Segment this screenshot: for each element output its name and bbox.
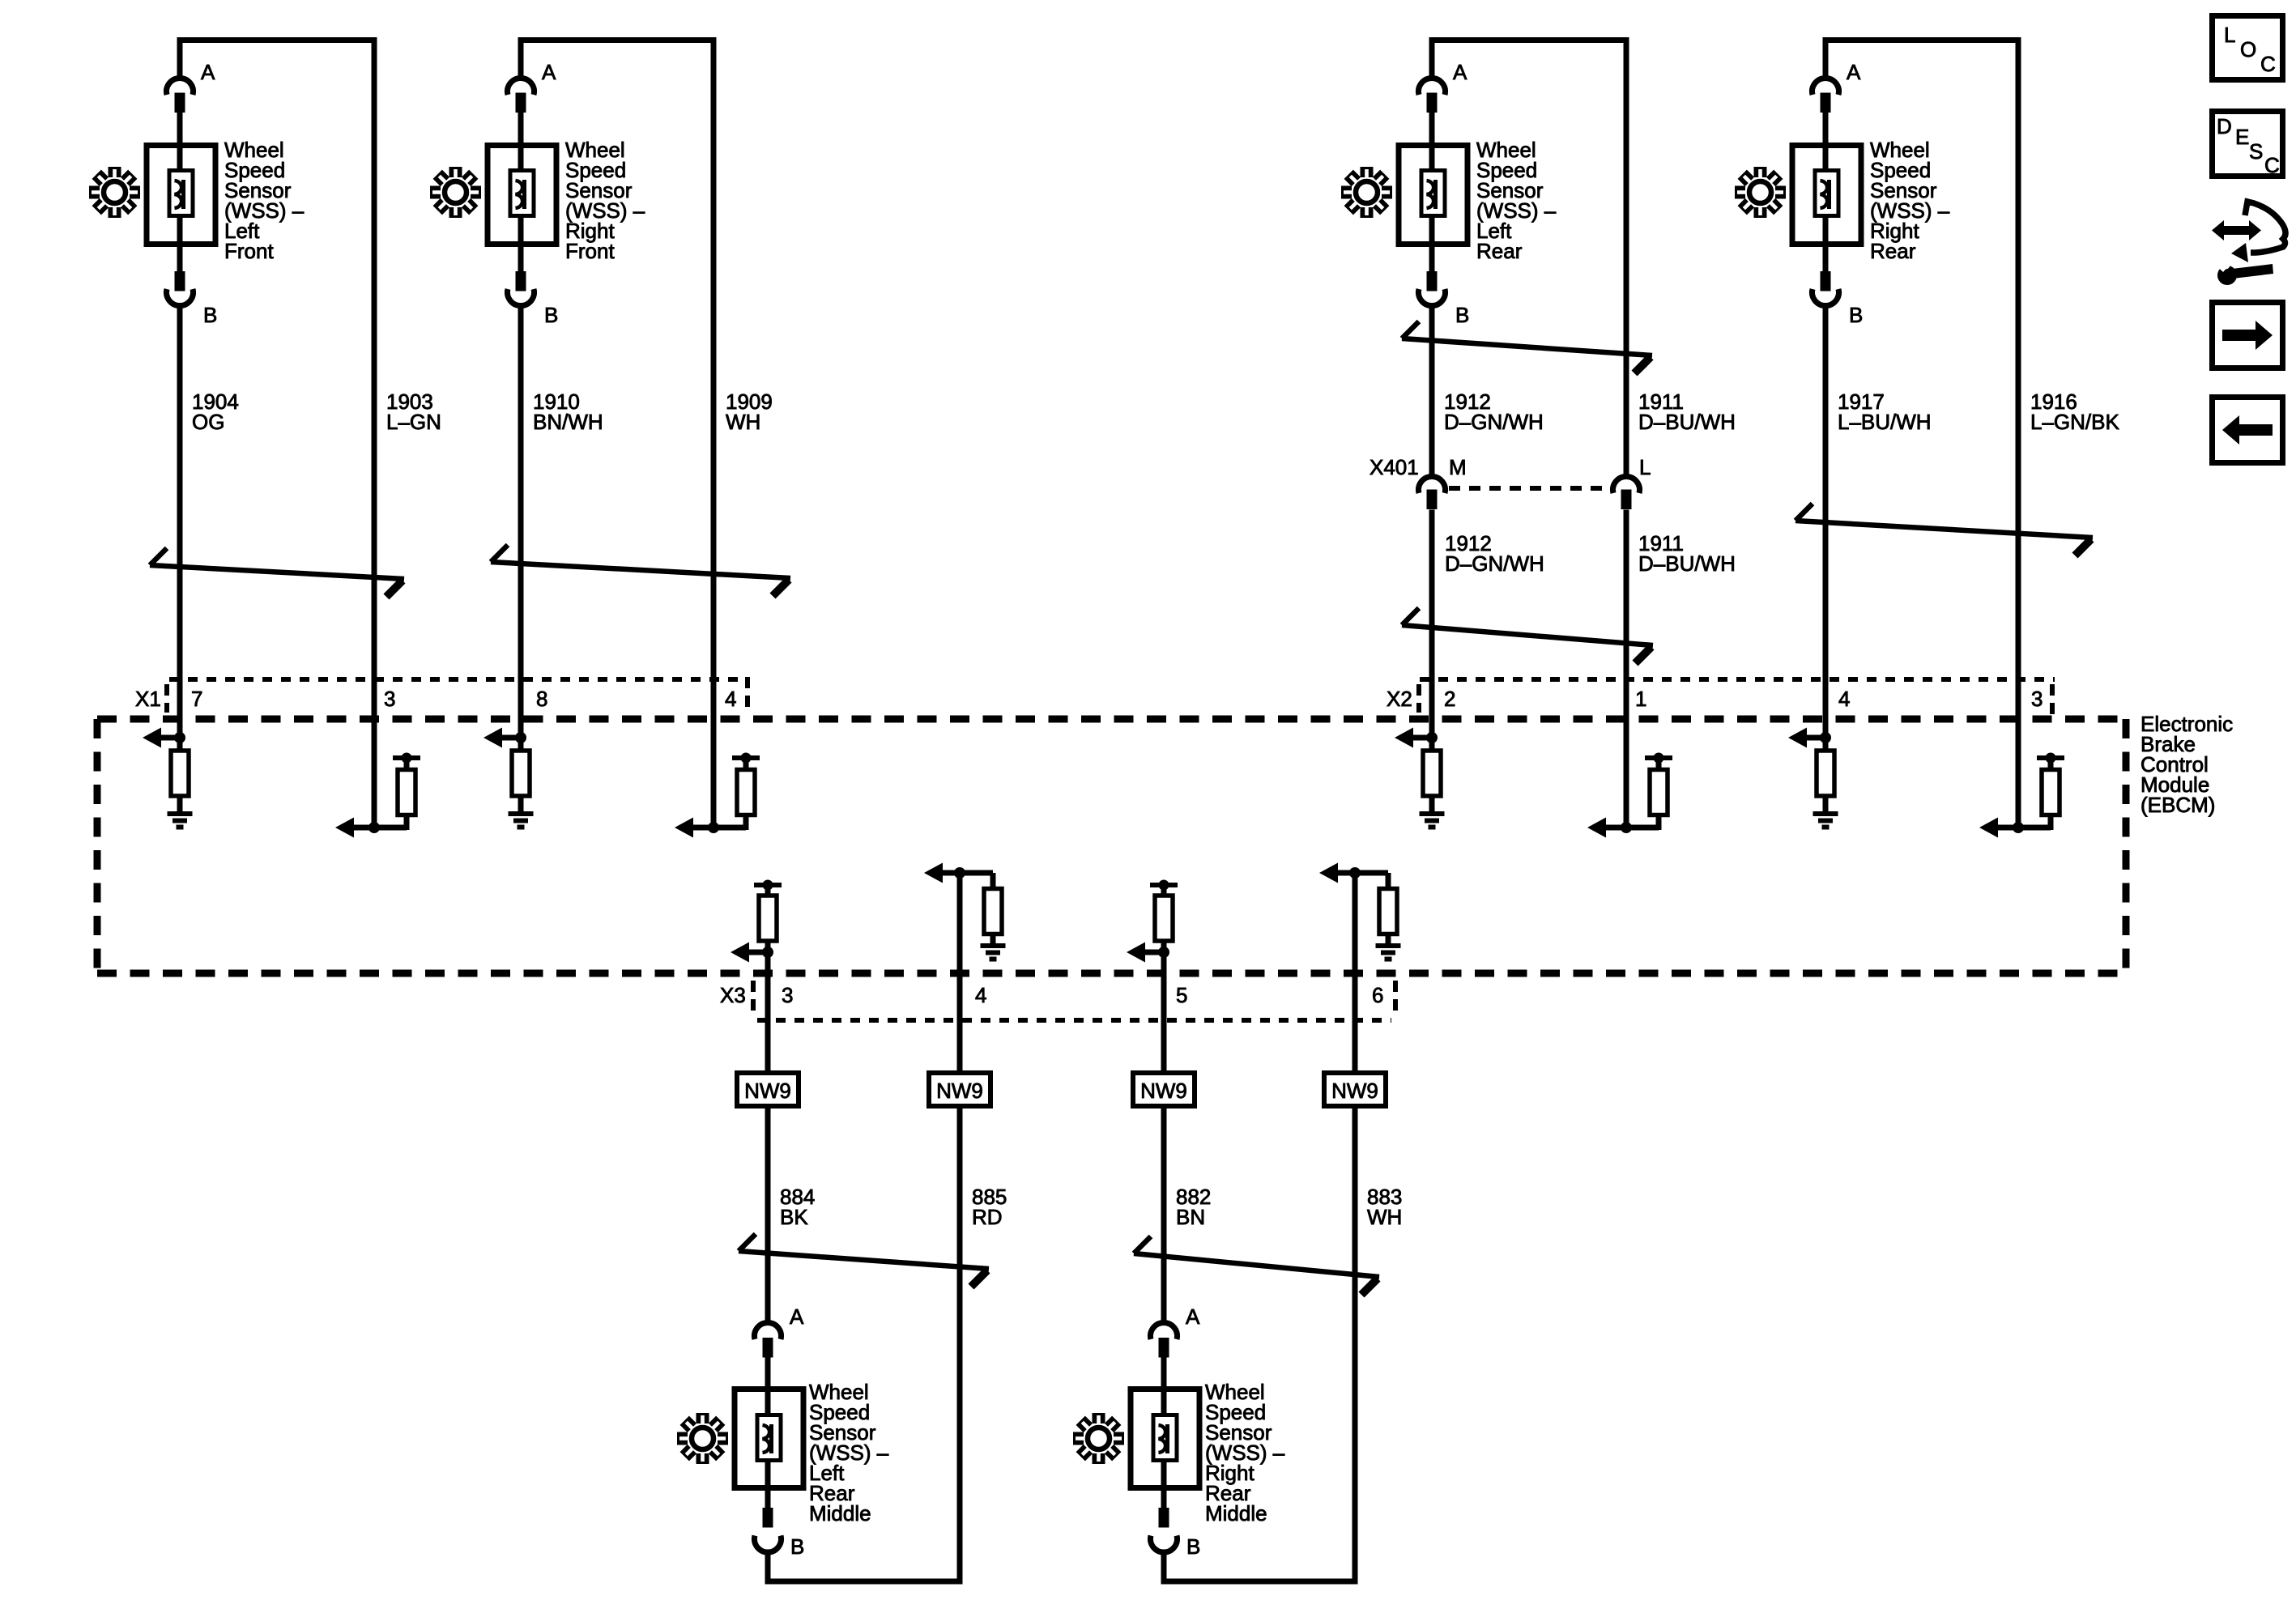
svg-text:M: M [1449, 455, 1467, 479]
svg-text:BN: BN [1176, 1205, 1205, 1229]
svg-text:L–BU/WH: L–BU/WH [1838, 410, 1932, 434]
svg-text:5: 5 [1176, 983, 1187, 1007]
svg-text:A: A [1453, 60, 1467, 84]
svg-text:L: L [2224, 23, 2235, 47]
svg-text:L–GN/BK: L–GN/BK [2030, 410, 2119, 434]
svg-text:BN/WH: BN/WH [533, 410, 603, 434]
svg-text:RD: RD [972, 1205, 1003, 1229]
svg-text:4: 4 [975, 983, 986, 1007]
svg-text:Front: Front [224, 239, 274, 263]
svg-text:WH: WH [726, 410, 760, 434]
svg-text:4: 4 [1838, 687, 1850, 711]
svg-text:B: B [1849, 303, 1863, 327]
svg-text:A: A [1186, 1304, 1200, 1329]
svg-text:B: B [544, 303, 558, 327]
svg-text:S: S [2249, 139, 2263, 164]
svg-text:Front: Front [565, 239, 615, 263]
svg-text:L–GN: L–GN [386, 410, 441, 434]
svg-text:A: A [201, 60, 215, 84]
svg-text:3: 3 [384, 687, 395, 711]
svg-text:Middle: Middle [1205, 1501, 1267, 1526]
svg-text:C: C [2264, 153, 2280, 177]
svg-text:D–GN/WH: D–GN/WH [1444, 410, 1544, 434]
svg-text:7: 7 [191, 687, 202, 711]
svg-text:3: 3 [782, 983, 793, 1007]
svg-text:D–BU/WH: D–BU/WH [1638, 410, 1736, 434]
svg-text:B: B [790, 1534, 804, 1559]
svg-text:B: B [203, 303, 217, 327]
svg-text:6: 6 [1372, 983, 1383, 1007]
svg-text:D–GN/WH: D–GN/WH [1445, 551, 1544, 576]
svg-text:Middle: Middle [809, 1501, 871, 1526]
svg-text:4: 4 [725, 687, 736, 711]
svg-text:X2: X2 [1387, 687, 1412, 711]
svg-text:B: B [1186, 1534, 1200, 1559]
svg-text:OG: OG [192, 410, 224, 434]
svg-text:8: 8 [536, 687, 547, 711]
svg-text:D: D [2217, 114, 2232, 138]
svg-text:O: O [2240, 37, 2256, 62]
svg-text:A: A [1847, 60, 1861, 84]
svg-text:B: B [1455, 303, 1469, 327]
svg-text:D–BU/WH: D–BU/WH [1638, 551, 1736, 576]
svg-text:X3: X3 [720, 983, 746, 1007]
svg-text:C: C [2260, 52, 2276, 76]
svg-text:(EBCM): (EBCM) [2141, 793, 2215, 817]
svg-text:2: 2 [1444, 687, 1455, 711]
svg-text:Rear: Rear [1476, 239, 1523, 263]
svg-text:1: 1 [1635, 687, 1646, 711]
svg-text:3: 3 [2031, 687, 2043, 711]
svg-text:X401: X401 [1370, 455, 1419, 479]
svg-text:A: A [542, 60, 556, 84]
svg-text:Rear: Rear [1870, 239, 1916, 263]
svg-text:BK: BK [780, 1205, 808, 1229]
svg-text:L: L [1639, 455, 1651, 479]
svg-text:X1: X1 [135, 687, 161, 711]
svg-text:A: A [790, 1304, 804, 1329]
svg-text:E: E [2235, 125, 2249, 149]
svg-text:WH: WH [1367, 1205, 1402, 1229]
